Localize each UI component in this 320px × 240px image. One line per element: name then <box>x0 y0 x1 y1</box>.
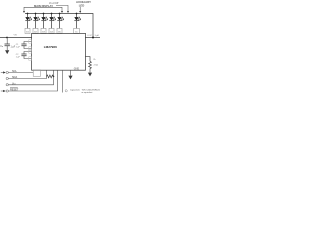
LED D4 <box>49 14 56 29</box>
wire main display bracket <box>24 7 62 11</box>
LED DAUX auxiliary <box>74 14 81 29</box>
node junction dot D4 anode <box>51 13 53 15</box>
capacitor CIN <box>6 38 8 45</box>
svg-text:D1: D1 <box>26 31 29 33</box>
svg-text:1 µF: 1 µF <box>16 46 21 48</box>
pin C2+ box <box>29 50 32 54</box>
pin D2 box <box>33 28 38 33</box>
ground CIN <box>5 50 9 54</box>
pin D5 box <box>57 28 62 33</box>
pin C1+ box <box>29 40 32 44</box>
svg-text:TDK C2012X5R0J1: TDK C2012X5R0J1 <box>82 89 101 91</box>
ground right resistor <box>88 73 92 77</box>
wire bracket left arrowhead <box>23 11 25 13</box>
resistor R1 <box>89 61 92 72</box>
wire auxiliary pointer arrow <box>79 7 81 11</box>
node junction dot DAUX anode <box>76 13 78 15</box>
LED D5 <box>57 14 64 29</box>
wire RESET <box>8 70 57 91</box>
node junction dot D3 anode <box>43 13 45 15</box>
svg-text:LED: LED <box>79 4 85 8</box>
svg-text:Cₙ: Cₙ <box>0 46 3 48</box>
pin DAUX box <box>74 28 80 33</box>
LED D2 <box>33 14 40 29</box>
svg-text:VIN: VIN <box>14 34 18 36</box>
svg-text:GND: GND <box>74 67 80 70</box>
wire bracket right arrowhead <box>61 11 63 13</box>
svg-text:RESET: RESET <box>10 89 19 92</box>
pin D4 box <box>49 28 54 33</box>
capacitor C1 flying <box>24 42 32 45</box>
svg-text:SCL: SCL <box>12 70 17 73</box>
resistor RPU pull-up <box>47 75 54 78</box>
wire SDA <box>8 70 46 78</box>
wire GND pin drop <box>70 70 72 76</box>
op-amp U1 LM27966 IC body <box>32 33 86 70</box>
svg-text:SDA: SDA <box>12 76 17 79</box>
wire VIO <box>8 70 53 85</box>
wire right pin stub <box>85 57 90 62</box>
wire VOUT pin stub <box>85 37 100 39</box>
svg-text:2 kΩ: 2 kΩ <box>94 65 99 67</box>
node junction dot D2 anode <box>35 13 37 15</box>
svg-text:Capacitors:: Capacitors: <box>70 88 81 91</box>
node VOUT junction dot <box>92 36 94 38</box>
node VIN junction dot <box>6 37 8 39</box>
wire aux line down <box>62 70 64 93</box>
ground GND pin <box>68 76 72 80</box>
node SDA terminal <box>6 77 8 79</box>
svg-text:VIO: VIO <box>12 83 16 86</box>
wire VOUT top rail <box>25 14 93 38</box>
svg-text:Rₐ: Rₐ <box>94 59 97 61</box>
node junction dot D1 anode <box>27 13 29 15</box>
wire vout callout leader <box>56 5 68 11</box>
svg-text:1 µF: 1 µF <box>95 35 100 37</box>
node open terminal bottom <box>65 90 67 92</box>
wire VIN rail <box>0 37 32 39</box>
svg-text:or equivalent: or equivalent <box>82 91 93 94</box>
svg-text:1 µF: 1 µF <box>16 56 21 58</box>
pin D1 box <box>25 28 30 33</box>
node junction dot D5 anode <box>59 13 61 15</box>
node SCL terminal <box>1 71 9 73</box>
node RPU-VIO junction dot <box>53 76 55 78</box>
LED D1 <box>25 14 32 29</box>
node RESET terminal <box>1 90 9 92</box>
node VIO terminal <box>6 84 8 86</box>
pin D3 box <box>41 28 46 33</box>
capacitor C2 flying <box>24 52 32 55</box>
wire SCL <box>8 72 33 74</box>
svg-text:VOUT/CP: VOUT/CP <box>49 2 59 5</box>
pin SCL box <box>33 70 40 76</box>
svg-text:LM27966: LM27966 <box>44 45 57 49</box>
pin C2- box <box>29 57 32 61</box>
svg-text:COUT: COUT <box>87 35 92 37</box>
LED D3 <box>41 14 48 29</box>
pin C1- box <box>29 47 32 51</box>
